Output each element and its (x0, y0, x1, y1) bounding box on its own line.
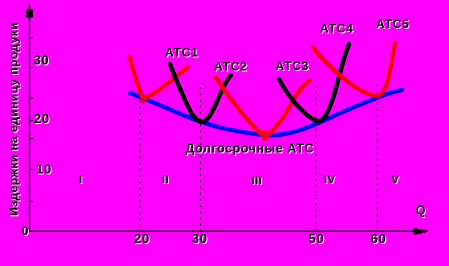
svg-text:Q: Q (416, 204, 426, 218)
y tick label 30 (33, 53, 50, 69)
x-axis (30, 230, 415, 232)
tangency dash at ATC3 bottom (263, 130, 267, 141)
y-axis arrowhead (26, 5, 33, 18)
svg-text:30: 30 (33, 53, 49, 68)
long-run ATC envelope curve (blue) (130, 90, 402, 135)
svg-text:ATC1: ATC1 (165, 46, 199, 60)
curve ATC4 (black) (279, 44, 349, 121)
region numeral IV (324, 174, 337, 187)
y tick label 20 (34, 111, 51, 127)
label ATC2 (214, 60, 249, 75)
region numeral III (252, 175, 264, 188)
label ATC4 (320, 22, 355, 37)
svg-text:V: V (392, 174, 400, 186)
svg-text:Долгосрочные АТС: Долгосрочные АТС (186, 142, 315, 156)
y-axis title (rotated): Издержки на единицу продуки (7, 22, 22, 217)
x-axis arrowhead (414, 228, 428, 234)
svg-text:60: 60 (371, 231, 387, 246)
x tick label 60 (371, 231, 388, 247)
y-axis (29, 17, 31, 232)
label Долгосрочные АТС (186, 142, 316, 157)
curve ATC2 (black) (170, 64, 231, 122)
svg-text:10: 10 (36, 161, 52, 176)
x tick label 20 (134, 231, 151, 247)
label Q (416, 204, 427, 219)
curve ATC1 (red) (130, 57, 189, 98)
x tick label 50 (308, 231, 325, 247)
dotted line at Q=50 (315, 86, 317, 232)
svg-text:I: I (79, 174, 83, 186)
svg-text:II: II (162, 174, 169, 186)
svg-text:0: 0 (22, 224, 29, 238)
svg-text:ATC2: ATC2 (214, 60, 248, 74)
label ATC5 (376, 17, 411, 32)
svg-text:30: 30 (192, 231, 208, 246)
svg-text:ATC5: ATC5 (376, 17, 410, 31)
svg-text:III: III (252, 175, 263, 187)
curve ATC3 (red) (216, 77, 311, 135)
svg-text:IV: IV (324, 174, 336, 186)
y tick label 10 (36, 161, 53, 177)
label ATC1 (165, 46, 200, 61)
svg-text:Издержки на единицу продуки: Издержки на единицу продуки (7, 22, 21, 216)
y tick label 0 (22, 224, 30, 239)
svg-text:50: 50 (308, 231, 324, 246)
svg-text:20: 20 (134, 231, 150, 246)
region numeral I (79, 174, 84, 187)
tangency dash at ATC1 bottom (141, 94, 145, 104)
region numeral II (162, 174, 170, 187)
dotted line at Q=30 (200, 87, 202, 231)
dotted line at Q=60 (376, 84, 378, 231)
svg-text:20: 20 (34, 111, 50, 126)
svg-text:ATC3: ATC3 (276, 59, 310, 73)
dotted line at Q=20 (139, 88, 141, 231)
label ATC3 (276, 59, 311, 74)
curve ATC5 (red) (313, 43, 395, 96)
y-axis ticks (30, 38, 34, 202)
svg-text:ATC4: ATC4 (320, 22, 354, 36)
region numeral V (392, 174, 401, 187)
x tick label 30 (192, 231, 209, 247)
